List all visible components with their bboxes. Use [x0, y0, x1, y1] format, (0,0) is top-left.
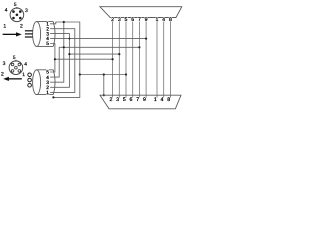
svg-text:5: 5: [125, 17, 128, 23]
svg-text:1: 1: [154, 97, 157, 103]
wire row to col2: [55, 58, 113, 60]
svg-text:8: 8: [169, 17, 172, 23]
svg-text:1: 1: [22, 72, 25, 78]
svg-text:9: 9: [145, 17, 148, 23]
wire pin4 row to col9: [50, 38, 146, 40]
column pin 4: [163, 18, 165, 98]
column pin 2: [112, 18, 114, 98]
X3 pin numbers: [111, 17, 172, 23]
svg-text:2: 2: [46, 85, 49, 91]
column pin 5: [125, 18, 127, 98]
node col2: [112, 58, 114, 60]
svg-text:4: 4: [162, 17, 165, 23]
wire shield drop to bottom shell: [103, 75, 105, 96]
svg-text:2: 2: [1, 71, 4, 77]
D-SUB vertical bus lines (pins 2 3 5 6 7 9 1 4 8): [113, 18, 171, 98]
node B: [79, 73, 81, 75]
svg-text:2: 2: [111, 17, 114, 23]
svg-text:8: 8: [167, 97, 170, 103]
wire pin3 run to B2: [50, 34, 69, 88]
svg-text:3: 3: [118, 17, 121, 23]
node crossing pin4 row: [69, 38, 71, 40]
svg-text:5: 5: [123, 97, 126, 103]
svg-text:2: 2: [20, 24, 23, 30]
X2 socket contacts (open circles): [11, 63, 20, 72]
column pin 7: [138, 18, 140, 98]
node col3: [118, 53, 120, 55]
wire row to col3: [69, 53, 119, 55]
circuit schematic: dual DIN-5 to dual D-SUB-9 adapter wiring diagram: [0, 0, 185, 116]
connector W1 cylindrical plug body (top): [33, 22, 56, 47]
wire pin5 run to B5: [50, 44, 55, 73]
node shell bottom: [103, 94, 105, 96]
connector W2 cylindrical socket body (bottom): [33, 70, 56, 95]
column pin 6: [132, 18, 134, 98]
wire pin2 run to B1: [50, 29, 75, 93]
column pin 3: [118, 18, 120, 98]
X4 pin numbers: [109, 97, 170, 103]
svg-text:3: 3: [25, 8, 28, 14]
column pin 9: [145, 18, 147, 98]
svg-text:4: 4: [24, 62, 27, 68]
svg-text:4: 4: [46, 75, 49, 81]
X2 pin number labels: [1, 55, 27, 78]
svg-text:5: 5: [14, 2, 17, 8]
node C shield: [103, 73, 105, 75]
svg-text:3: 3: [46, 80, 49, 86]
node G: [54, 58, 56, 60]
node col7: [138, 46, 140, 48]
node A: [63, 21, 65, 23]
wire branch vertical via node A to B3: [50, 22, 64, 82]
svg-text:5: 5: [13, 55, 16, 61]
svg-text:4: 4: [5, 7, 8, 13]
svg-text:7: 7: [136, 97, 139, 103]
svg-text:4: 4: [161, 97, 164, 103]
W1 male pins (left side dashes): [25, 31, 33, 37]
svg-text:6: 6: [131, 17, 134, 23]
column pin 1: [156, 18, 158, 98]
svg-text:7: 7: [138, 17, 141, 23]
svg-text:3: 3: [3, 61, 6, 67]
node D col5: [125, 73, 127, 75]
X1 pin contacts (male dots): [12, 10, 21, 19]
connector X1 circular DIN face (male, top left): [10, 7, 24, 22]
junction dots: [52, 21, 147, 99]
svg-text:1: 1: [156, 17, 159, 23]
connector X4 D-SUB 9 shell (bottom): [100, 95, 181, 109]
wire pin1 main run: [50, 22, 80, 97]
svg-text:1: 1: [3, 23, 6, 29]
W1 pin numbers 1-5: [46, 22, 49, 48]
W2 pin numbers 5-1: [46, 70, 49, 96]
svg-text:3: 3: [116, 97, 119, 103]
column pin 8: [169, 18, 171, 98]
node E: [63, 46, 65, 48]
wire net pin1: X1-1 to DSUB-5 and shield: [50, 22, 146, 97]
svg-text:6: 6: [130, 97, 133, 103]
arrow (mating direction, points left): [3, 77, 22, 81]
W2 female sockets (left side circles): [28, 73, 32, 87]
X1 pin number labels: [3, 2, 28, 30]
arrow (mating direction, points right): [3, 32, 22, 36]
node col9: [145, 38, 147, 40]
wire B4 riser: [50, 47, 59, 77]
svg-text:5: 5: [46, 41, 49, 47]
wire row to col7: [59, 46, 139, 48]
wire pin1 tap row to col5: [80, 74, 126, 76]
node shield at W2 shell: [52, 96, 54, 98]
connector X2 circular DIN face (female, bottom left): [9, 60, 23, 75]
svg-text:1: 1: [46, 90, 49, 96]
connector X3 D-SUB 9 shell (top): [100, 7, 182, 18]
svg-text:5: 5: [46, 70, 49, 76]
svg-text:9: 9: [143, 97, 146, 103]
node F: [68, 53, 70, 55]
svg-text:2: 2: [109, 97, 112, 103]
